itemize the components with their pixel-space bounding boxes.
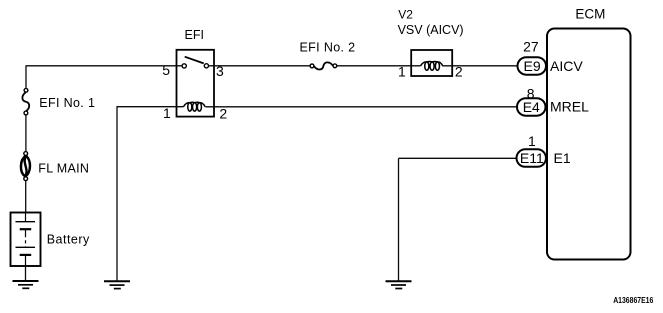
pin number 27 xyxy=(523,39,539,55)
label MREL xyxy=(550,99,589,115)
ECM box xyxy=(547,29,631,260)
wire E1 vertical down to ground xyxy=(398,158,400,280)
pin label 2 (VSV) xyxy=(455,63,463,79)
svg-text:FL MAIN: FL MAIN xyxy=(38,162,89,176)
label V2 xyxy=(398,7,413,21)
relay switch arm xyxy=(185,57,204,64)
svg-text:EFI No. 2: EFI No. 2 xyxy=(300,40,356,54)
pin label 3 xyxy=(216,63,224,79)
svg-text:Battery: Battery xyxy=(47,232,90,246)
fuse EFI No. 2 xyxy=(310,62,337,69)
pin number 1 (ECM) xyxy=(528,133,536,149)
label EFI No. 1 xyxy=(39,96,95,110)
ground below relay pin 1 wire xyxy=(104,281,130,288)
battery cells xyxy=(16,212,36,266)
svg-text:E4: E4 xyxy=(523,99,540,115)
VSV V2 box xyxy=(411,50,452,76)
battery box xyxy=(11,213,41,267)
label E1 xyxy=(554,150,571,166)
wire relay pin 1 left xyxy=(117,106,184,108)
wire top horizontal from left branch to relay pin 5 xyxy=(26,65,182,67)
connector E4 xyxy=(517,98,546,116)
svg-text:A136867E16: A136867E16 xyxy=(613,296,653,306)
label Battery xyxy=(47,232,90,246)
relay switch contact pin 3 xyxy=(204,64,208,68)
svg-text:EFI No. 1: EFI No. 1 xyxy=(39,96,95,110)
wire relay pin 3 to fuse EFI No. 2 xyxy=(209,65,310,67)
label VSV (AICV) xyxy=(398,23,464,37)
wire fusible link to battery xyxy=(25,181,27,212)
figure number A136867E16 xyxy=(613,296,653,306)
pin label 5 xyxy=(162,62,170,78)
fuse EFI No. 1 xyxy=(22,88,29,115)
wire E1 horizontal xyxy=(399,157,519,159)
svg-text:1: 1 xyxy=(528,133,536,149)
svg-text:V2: V2 xyxy=(398,7,413,21)
wire between fuse EFI No. 1 and fusible link xyxy=(25,115,27,152)
wire battery to ground xyxy=(25,266,27,281)
svg-text:1: 1 xyxy=(398,63,406,79)
ground below battery xyxy=(13,281,39,288)
svg-text:1: 1 xyxy=(163,105,171,121)
VSV solenoid coil xyxy=(421,61,443,70)
svg-text:AICV: AICV xyxy=(550,58,583,74)
label EFI No. 2 xyxy=(300,40,356,54)
wire relay pin 1 down to ground xyxy=(116,107,118,281)
svg-text:E11: E11 xyxy=(520,150,544,166)
pin number 8 xyxy=(527,85,535,101)
relay EFI box xyxy=(177,50,215,117)
label FL MAIN xyxy=(38,162,89,176)
wire relay coil pin 2 to ECM connector E4 xyxy=(205,106,518,108)
relay switch contact pin 5 xyxy=(182,64,186,68)
svg-text:ECM: ECM xyxy=(575,7,605,22)
svg-text:5: 5 xyxy=(162,62,170,78)
label EFI (relay) xyxy=(185,28,204,42)
relay coil xyxy=(184,102,206,111)
connector E9 xyxy=(518,57,547,74)
pin label 1 (VSV) xyxy=(398,63,406,79)
svg-text:E9: E9 xyxy=(524,58,541,74)
pin label 2 (relay) xyxy=(219,105,227,121)
svg-text:MREL: MREL xyxy=(550,99,589,115)
svg-text:VSV (AICV): VSV (AICV) xyxy=(398,23,464,37)
svg-text:E1: E1 xyxy=(554,150,571,166)
connector E11 xyxy=(517,149,547,167)
label AICV xyxy=(550,58,583,74)
label ECM xyxy=(575,7,605,22)
pin label 1 (relay) xyxy=(163,105,171,121)
svg-text:EFI: EFI xyxy=(185,28,204,42)
wire VSV to ECM connector E9 xyxy=(442,65,518,67)
ground below E1 wire xyxy=(386,281,412,288)
svg-text:27: 27 xyxy=(523,39,539,55)
fusible link FL MAIN xyxy=(21,152,30,181)
wire left vertical down to fuse EFI No. 1 xyxy=(25,66,27,89)
svg-text:2: 2 xyxy=(219,105,227,121)
wire fuse EFI No. 2 to VSV coil xyxy=(337,65,421,67)
